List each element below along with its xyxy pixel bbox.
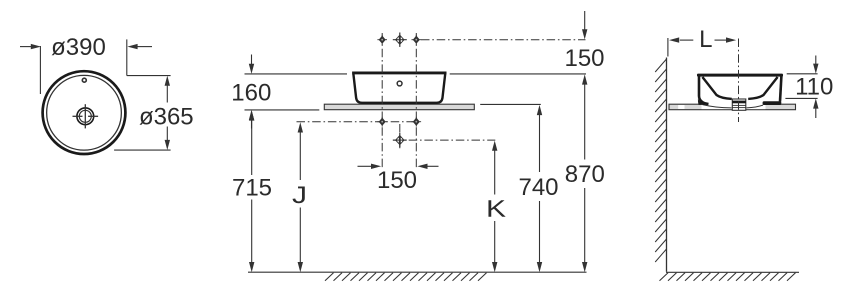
- svg-text:160: 160: [231, 79, 271, 106]
- svg-text:110: 110: [795, 73, 833, 100]
- svg-text:J: J: [292, 182, 307, 209]
- svg-text:150: 150: [377, 167, 417, 194]
- svg-text:740: 740: [518, 174, 558, 201]
- svg-text:ø390: ø390: [51, 34, 106, 61]
- svg-text:K: K: [486, 196, 506, 223]
- svg-text:L: L: [699, 26, 712, 53]
- svg-text:870: 870: [565, 161, 605, 188]
- svg-text:150: 150: [564, 45, 604, 72]
- svg-text:ø365: ø365: [139, 103, 194, 130]
- svg-text:715: 715: [232, 174, 272, 201]
